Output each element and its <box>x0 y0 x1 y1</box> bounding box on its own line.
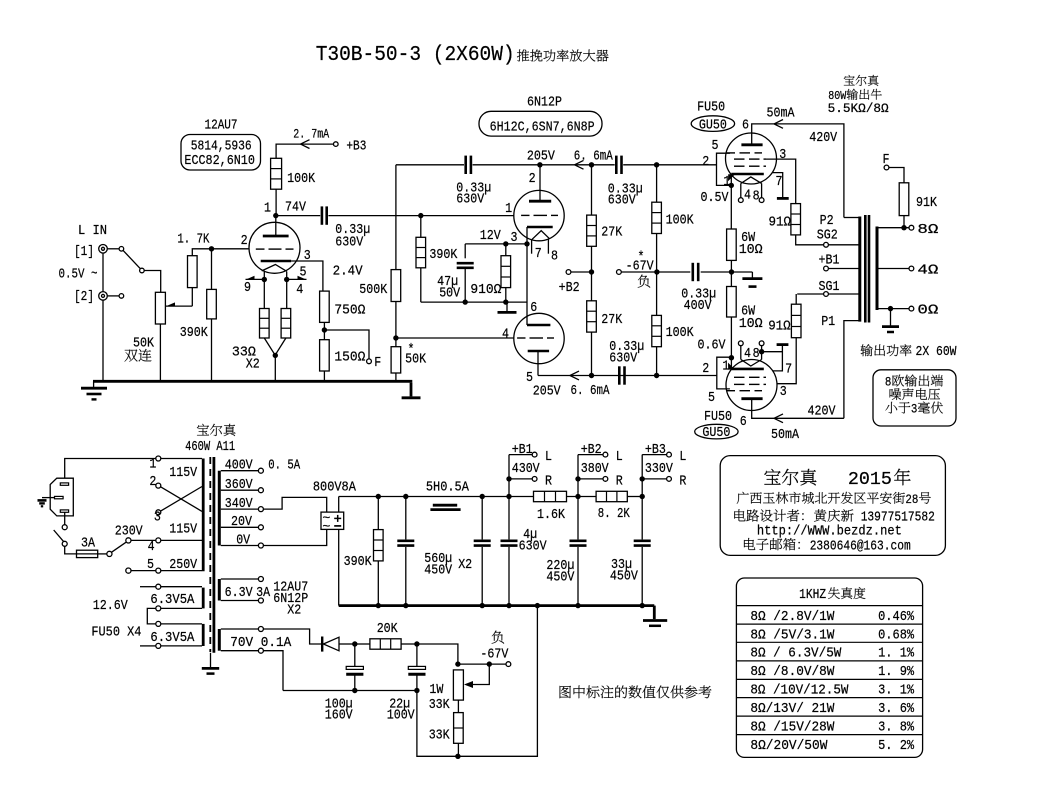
svg-text:X2: X2 <box>458 557 472 573</box>
svg-text:T30B-50-3 (2X60W): T30B-50-3 (2X60W) <box>316 44 515 67</box>
svg-text:27K: 27K <box>601 312 622 328</box>
svg-text:0. 5A: 0. 5A <box>268 458 300 474</box>
svg-text:450V: 450V <box>546 570 574 586</box>
svg-text:8Ω /2.8V/1W: 8Ω /2.8V/1W <box>750 609 835 625</box>
svg-text:8Ω /8.0V/8W: 8Ω /8.0V/8W <box>750 664 835 680</box>
svg-text:3. 8%: 3. 8% <box>878 719 915 735</box>
svg-text:20K: 20K <box>377 621 398 637</box>
svg-text:50mA: 50mA <box>771 427 799 443</box>
svg-text:4: 4 <box>296 282 303 298</box>
svg-text:91Ω: 91Ω <box>768 319 791 335</box>
svg-text:91Ω: 91Ω <box>769 215 792 231</box>
svg-text:340V: 340V <box>225 496 253 512</box>
svg-text:ECC82,6N10: ECC82,6N10 <box>184 153 255 169</box>
svg-text:5H0.5A: 5H0.5A <box>426 479 469 495</box>
svg-text:F: F <box>883 152 890 168</box>
svg-text:7: 7 <box>535 246 542 262</box>
svg-text:4Ω: 4Ω <box>917 263 938 279</box>
svg-text:70V 0.1A: 70V 0.1A <box>230 635 292 651</box>
svg-text:6.3V: 6.3V <box>225 585 253 601</box>
svg-text:380V: 380V <box>581 461 609 477</box>
svg-text:8Ω /10V/12.5W: 8Ω /10V/12.5W <box>750 683 849 699</box>
svg-text:3A: 3A <box>256 585 270 601</box>
svg-text:2: 2 <box>529 171 536 187</box>
svg-text:420V: 420V <box>808 404 836 420</box>
svg-text:8: 8 <box>753 189 760 205</box>
svg-text:0.68%: 0.68% <box>878 627 915 643</box>
svg-text:450V: 450V <box>424 563 452 579</box>
svg-text:+B2: +B2 <box>559 280 580 296</box>
svg-text:400V: 400V <box>225 458 253 474</box>
svg-text:1KHZ: 1KHZ <box>799 587 826 603</box>
svg-text:160V: 160V <box>325 708 353 724</box>
svg-text:[1]: [1] <box>74 244 94 260</box>
svg-text:910Ω: 910Ω <box>470 282 501 298</box>
svg-text:360V: 360V <box>225 477 253 493</box>
svg-text:1. 9%: 1. 9% <box>878 664 915 680</box>
svg-text:750Ω: 750Ω <box>334 303 365 319</box>
svg-text:28: 28 <box>905 492 918 507</box>
svg-text:8: 8 <box>753 346 760 362</box>
svg-text:6: 6 <box>530 300 537 316</box>
svg-text:20V: 20V <box>231 514 252 530</box>
svg-text:0.5V: 0.5V <box>701 190 729 206</box>
svg-text:3. 6%: 3. 6% <box>878 701 915 717</box>
svg-text:100V: 100V <box>387 708 415 724</box>
svg-text:FU50 X4: FU50 X4 <box>91 625 141 641</box>
svg-text:150Ω: 150Ω <box>334 350 365 366</box>
svg-text:8Ω/20V/50W: 8Ω/20V/50W <box>750 738 828 754</box>
svg-text:8Ω: 8Ω <box>917 222 938 238</box>
svg-text:+B3: +B3 <box>346 138 366 154</box>
svg-text:+B1: +B1 <box>512 442 533 458</box>
svg-text:330V: 330V <box>645 461 673 477</box>
svg-text:630V: 630V <box>608 193 636 209</box>
svg-text:80W: 80W <box>828 89 847 103</box>
svg-text:33K: 33K <box>429 697 450 713</box>
svg-text:630V: 630V <box>335 234 363 250</box>
svg-text:6: 6 <box>742 118 749 134</box>
svg-text:4: 4 <box>148 539 155 555</box>
svg-text:2380646@163.com: 2380646@163.com <box>810 539 911 554</box>
svg-text:8Ω / 6.3V/5W: 8Ω / 6.3V/5W <box>750 646 842 662</box>
svg-text:430V: 430V <box>512 461 540 477</box>
svg-text:-67V: -67V <box>480 646 508 662</box>
svg-text:5.5KΩ/8Ω: 5.5KΩ/8Ω <box>828 102 890 116</box>
svg-text:L IN: L IN <box>78 223 107 239</box>
svg-text:6.3V5A: 6.3V5A <box>150 592 195 608</box>
svg-text:630V: 630V <box>519 538 547 554</box>
svg-text:100K: 100K <box>666 212 694 228</box>
svg-text:R: R <box>616 474 623 490</box>
svg-text:500K: 500K <box>359 282 387 298</box>
svg-text:390K: 390K <box>429 247 457 263</box>
svg-text:8. 2K: 8. 2K <box>598 506 630 522</box>
svg-text:2015: 2015 <box>848 470 892 490</box>
svg-text:100K: 100K <box>666 325 694 341</box>
svg-text:L: L <box>545 449 552 465</box>
svg-text:F: F <box>374 355 381 371</box>
svg-text:6H12C,6SN7,6N8P: 6H12C,6SN7,6N8P <box>490 120 595 136</box>
svg-text:FU50: FU50 <box>704 409 732 425</box>
svg-text:0.46%: 0.46% <box>878 609 915 625</box>
svg-text:5: 5 <box>712 138 719 154</box>
svg-text:2.4V: 2.4V <box>333 263 364 279</box>
svg-text:2: 2 <box>149 474 156 490</box>
svg-text:6N12P: 6N12P <box>527 94 562 110</box>
svg-text:http://WWW.bezdz.net: http://WWW.bezdz.net <box>757 525 902 540</box>
svg-text:115V: 115V <box>169 521 197 537</box>
svg-text:3: 3 <box>779 147 786 163</box>
svg-text:100K: 100K <box>287 171 315 187</box>
svg-text:4: 4 <box>744 346 751 362</box>
svg-text:9: 9 <box>244 280 251 296</box>
svg-text:50V: 50V <box>439 285 460 301</box>
svg-text:390K: 390K <box>344 554 372 570</box>
svg-text:3: 3 <box>511 230 518 246</box>
svg-text:5. 2%: 5. 2% <box>878 738 915 754</box>
svg-text:7: 7 <box>776 174 783 190</box>
svg-text:8: 8 <box>885 375 892 390</box>
svg-text:450V: 450V <box>610 569 638 585</box>
svg-text:1: 1 <box>505 201 512 217</box>
svg-text:GU50: GU50 <box>699 117 727 133</box>
svg-text:4: 4 <box>744 187 751 203</box>
svg-text:2: 2 <box>702 154 709 170</box>
svg-text:2: 2 <box>702 361 709 377</box>
svg-text:8Ω /15V/28W: 8Ω /15V/28W <box>750 719 835 735</box>
svg-text:1: 1 <box>264 200 271 216</box>
svg-text:205V: 205V <box>533 384 561 400</box>
svg-text:420V: 420V <box>809 130 837 146</box>
svg-text:1. 1%: 1. 1% <box>878 646 915 662</box>
svg-text:12V: 12V <box>480 228 501 244</box>
svg-text:+B2: +B2 <box>581 442 602 458</box>
svg-text:R: R <box>545 474 552 490</box>
svg-text:8Ω/13V/ 21W: 8Ω/13V/ 21W <box>750 701 835 717</box>
svg-text:8Ω /5V/3.1W: 8Ω /5V/3.1W <box>750 627 835 643</box>
svg-text:0Ω: 0Ω <box>917 303 938 319</box>
svg-text:1. 7K: 1. 7K <box>177 232 209 248</box>
svg-text:91K: 91K <box>916 195 937 211</box>
svg-text:5: 5 <box>708 390 715 406</box>
svg-text:~: ~ <box>322 519 330 534</box>
svg-text:13977517582: 13977517582 <box>861 511 935 526</box>
svg-text:0.6V: 0.6V <box>698 337 726 353</box>
svg-text:630V: 630V <box>456 192 484 208</box>
svg-text:+B3: +B3 <box>645 442 666 458</box>
svg-text:6: 6 <box>740 414 747 430</box>
svg-text:50mA: 50mA <box>767 106 795 122</box>
svg-text:230V: 230V <box>115 523 143 539</box>
svg-text:SG2: SG2 <box>817 227 838 243</box>
svg-text:-67V: -67V <box>626 259 654 275</box>
svg-text:205V: 205V <box>527 149 555 165</box>
svg-text:6. 6mA: 6. 6mA <box>571 383 610 399</box>
svg-text:3: 3 <box>911 402 918 417</box>
svg-text:390K: 390K <box>180 325 208 341</box>
svg-text:3: 3 <box>154 509 161 525</box>
svg-text:10Ω: 10Ω <box>739 242 763 258</box>
svg-text:3A: 3A <box>81 535 95 551</box>
svg-text:X2: X2 <box>246 357 260 373</box>
svg-text:115V: 115V <box>169 465 197 481</box>
svg-text:50K: 50K <box>133 336 154 352</box>
svg-text:27K: 27K <box>601 225 622 241</box>
svg-text:X2: X2 <box>287 602 301 618</box>
svg-text:33K: 33K <box>429 728 450 744</box>
svg-text:74V: 74V <box>285 199 306 215</box>
svg-text:5: 5 <box>300 265 307 281</box>
svg-text:3: 3 <box>780 384 787 400</box>
svg-text:L: L <box>679 449 686 465</box>
svg-text:1W: 1W <box>429 682 443 698</box>
svg-text:250V: 250V <box>169 557 197 573</box>
svg-text:400V: 400V <box>684 298 712 314</box>
svg-text:6.3V5A: 6.3V5A <box>150 630 195 646</box>
svg-text:R: R <box>679 474 686 490</box>
svg-text:SG1: SG1 <box>819 279 840 295</box>
svg-text:2. 7mA: 2. 7mA <box>293 126 329 141</box>
svg-text:+B1: +B1 <box>819 253 840 269</box>
svg-text:50K: 50K <box>405 351 426 367</box>
svg-text:2: 2 <box>241 233 248 249</box>
svg-text:3. 1%: 3. 1% <box>878 683 915 699</box>
svg-text:630V: 630V <box>609 350 637 366</box>
svg-text:[2]: [2] <box>74 289 94 305</box>
svg-text:10Ω: 10Ω <box>739 316 763 332</box>
svg-text:460W A11: 460W A11 <box>185 439 235 455</box>
svg-text:5814,5936: 5814,5936 <box>191 139 252 155</box>
svg-text:0.5V ~: 0.5V ~ <box>59 267 98 283</box>
svg-text:12.6V: 12.6V <box>93 598 128 614</box>
svg-text:12AU7: 12AU7 <box>205 118 238 134</box>
svg-text:4: 4 <box>502 326 509 342</box>
svg-text:7: 7 <box>785 362 792 378</box>
svg-text:2X 60W: 2X 60W <box>916 344 957 360</box>
svg-text:L: L <box>616 449 623 465</box>
svg-text:P1: P1 <box>821 314 835 330</box>
svg-text:FU50: FU50 <box>697 100 725 116</box>
svg-text:800V8A: 800V8A <box>313 480 356 496</box>
svg-text:0V: 0V <box>236 532 250 548</box>
svg-text:1.6K: 1.6K <box>537 507 565 523</box>
svg-text:8: 8 <box>551 248 558 264</box>
svg-text:GU50: GU50 <box>702 425 730 441</box>
